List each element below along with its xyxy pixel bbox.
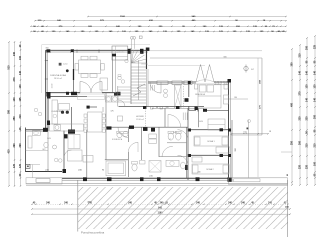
svg-text:410: 410	[8, 149, 11, 154]
bath bump north wall	[26, 129, 49, 131]
wall x198.5	[198, 108, 200, 127]
stair enclosure right thick	[146, 50, 148, 69]
svg-text:230: 230	[306, 116, 309, 121]
svg-text:garderoba: garderoba	[117, 50, 125, 53]
washbasins bath1	[117, 132, 122, 137]
wall toilet room y142.8	[167, 142, 187, 144]
svg-text:12.80 m2: 12.80 m2	[136, 119, 144, 121]
svg-text:270: 270	[299, 91, 302, 96]
bed 2 mid bedroom	[194, 136, 229, 146]
bump partition wall x48	[47, 131, 49, 172]
wall x128.3	[127, 127, 129, 142]
wall x165 upper	[164, 108, 166, 127]
shower square	[149, 161, 161, 173]
column kitchen wall	[47, 96, 51, 99]
bath bump west wall	[25, 128, 27, 173]
bump bath toilet	[44, 142, 48, 148]
svg-text:WC: WC	[42, 149, 46, 151]
property line x248	[248, 120, 250, 178]
wall east bedroom	[228, 80, 230, 182]
bedroom south wall	[189, 109, 196, 111]
roof overhang outline left	[41, 45, 43, 93]
column south x141	[140, 177, 144, 181]
office east wall	[86, 130, 88, 178]
svg-text:Pomožna površina: Pomožna površina	[81, 231, 105, 235]
svg-text:380: 380	[8, 109, 11, 114]
door arc lower	[162, 146, 173, 157]
dining cabinet	[100, 78, 108, 90]
svg-text:175: 175	[111, 110, 114, 112]
office closet upper	[68, 135, 80, 149]
svg-text:210: 210	[299, 53, 302, 58]
right dimension chain col 3	[306, 38, 308, 185]
svg-text:220: 220	[299, 164, 302, 169]
column south living left	[47, 92, 51, 97]
window in north wall 1	[157, 81, 168, 84]
svg-text:225: 225	[314, 44, 317, 49]
svg-text:140: 140	[306, 97, 309, 102]
svg-text:210: 210	[306, 143, 309, 148]
wardrobe mid	[216, 147, 230, 153]
stair up arrow line	[138, 60, 140, 100]
svg-text:140: 140	[314, 70, 317, 75]
chairs bottom	[81, 74, 88, 78]
svg-text:SPALNICA: SPALNICA	[195, 93, 205, 96]
dark mark stair bottom	[117, 92, 121, 96]
svg-text:KOPALNICA: KOPALNICA	[112, 138, 123, 141]
terrace overhang line	[148, 50, 262, 52]
wall x186.5	[186, 127, 188, 178]
svg-text:HODNIK: HODNIK	[136, 116, 145, 118]
svg-text:KUHINJA: KUHINJA	[51, 110, 61, 113]
svg-text:±0.00: ±0.00	[52, 84, 54, 88]
hatch left boundary line	[77, 180, 79, 232]
column SE corner	[228, 177, 232, 182]
slab strip left detail	[36, 179, 50, 183]
left wall window ticks	[45, 60, 48, 62]
svg-text:kamin: kamin	[63, 64, 68, 66]
door arc lower bedroom	[178, 155, 189, 166]
svg-text:160: 160	[314, 161, 317, 166]
utility west wall	[105, 93, 107, 160]
column south x158	[157, 177, 161, 181]
svg-text:260: 260	[299, 140, 302, 145]
top wall window ticks	[50, 49, 52, 52]
column top-left	[47, 49, 51, 52]
svg-text:210: 210	[19, 114, 22, 119]
entry door arc	[150, 82, 161, 93]
stoop below french door	[78, 94, 105, 100]
bedroom1 french door arcs	[196, 65, 201, 83]
svg-text:250: 250	[291, 140, 294, 145]
svg-text:140: 140	[19, 70, 22, 75]
left dimension chain col 2	[14, 42, 16, 186]
svg-text:140: 140	[306, 70, 309, 75]
svg-text:140: 140	[299, 70, 302, 75]
window in north wall 3	[184, 81, 192, 84]
entry circles	[164, 89, 168, 93]
entry hall west wall thin	[145, 69, 147, 107]
wall y156.7	[159, 156, 187, 158]
exterior wall top (living)	[46, 49, 149, 51]
svg-text:250: 250	[13, 116, 16, 121]
dim line 275	[232, 133, 269, 135]
terrace paving edge line	[148, 65, 205, 67]
svg-text:90: 90	[156, 107, 158, 109]
level marker box	[26, 164, 30, 168]
terrace outline right	[261, 58, 263, 135]
wall x159	[158, 127, 160, 157]
stair cut line	[133, 84, 145, 96]
stair east wall	[145, 50, 147, 69]
terrace inner edge	[257, 58, 259, 177]
svg-text:290: 290	[13, 143, 16, 148]
svg-text:90/60: 90/60	[173, 132, 177, 134]
vent dashed lines	[145, 108, 147, 127]
chair left	[75, 64, 78, 71]
dining east wall double	[112, 56, 114, 93]
window in north wall 2	[172, 81, 182, 84]
dining table kitchen	[88, 112, 103, 132]
door arc mid bedroom	[178, 130, 189, 141]
svg-text:90/60: 90/60	[47, 138, 51, 140]
top dimension chain row total	[88, 16, 286, 18]
bump partition wall y150	[26, 150, 49, 152]
kitchen island	[59, 104, 70, 111]
svg-text:130: 130	[13, 97, 16, 102]
svg-text:1160: 1160	[120, 16, 126, 18]
svg-text:120: 120	[166, 107, 169, 109]
kitchen west wall lower	[47, 97, 49, 132]
svg-text:180: 180	[234, 97, 237, 99]
wall segment mid y107	[87, 106, 97, 108]
column top x146 stair	[146, 48, 150, 51]
svg-text:240: 240	[198, 172, 201, 174]
section arrow bed area	[185, 165, 188, 170]
interior wall living/dining	[73, 50, 75, 93]
columns on bath top wall	[107, 126, 112, 129]
dining table	[79, 60, 101, 74]
column top x128	[128, 49, 131, 54]
entry closet strips	[175, 85, 182, 108]
svg-text:SOBA 2: SOBA 2	[206, 168, 214, 171]
wardrobe low	[192, 157, 202, 162]
door arc mid	[168, 115, 181, 128]
column dining	[71, 92, 77, 95]
column kitchen SE	[68, 130, 75, 134]
toilet bidet pair	[168, 133, 173, 140]
drain circle right	[248, 120, 251, 123]
sink counter lower	[166, 160, 179, 166]
svg-text:28.50 m2: 28.50 m2	[54, 78, 63, 80]
svg-text:130: 130	[314, 84, 317, 89]
radiator below window	[150, 85, 152, 91]
svg-text:210: 210	[314, 143, 317, 148]
svg-text:490: 490	[291, 102, 294, 107]
dark mark utility	[114, 93, 117, 96]
office desk	[68, 150, 83, 161]
slab strip left outline	[26, 178, 62, 184]
svg-text:DNEVNA SOBA: DNEVNA SOBA	[50, 74, 66, 77]
wall niche top	[112, 46, 128, 60]
living symbol	[59, 63, 62, 66]
stair niche symbols	[118, 76, 122, 80]
short wall x103	[102, 107, 104, 112]
svg-text:90/60: 90/60	[199, 121, 203, 123]
nightstand	[224, 84, 228, 89]
bed 3 lower bedroom	[192, 164, 229, 174]
right dimension chain col 4	[314, 36, 316, 185]
staircase treads upper flight	[131, 66, 146, 68]
bed 1 bedroom top right	[198, 84, 221, 108]
column south x108	[107, 177, 112, 181]
column NE	[228, 79, 232, 83]
hall south wall second line	[152, 107, 204, 109]
column entry SE	[185, 98, 189, 102]
hatched auxiliary surface area	[78, 187, 288, 229]
svg-text:130: 130	[19, 84, 22, 89]
kitchen sink	[54, 125, 61, 131]
svg-text:200: 200	[314, 114, 317, 119]
chairs dining right	[102, 114, 105, 117]
office cabinet	[83, 156, 93, 163]
floor drain symbols	[34, 108, 38, 112]
chairs dining left	[84, 114, 87, 117]
french door living arcs	[80, 82, 91, 93]
hall east wall segment	[187, 108, 189, 180]
stair left edge	[117, 86, 119, 107]
svg-text:160: 160	[19, 55, 22, 60]
wall dark segment	[73, 69, 75, 80]
office door arc	[64, 150, 72, 158]
svg-text:120: 120	[13, 163, 16, 168]
kitchen counter bottom	[50, 124, 84, 131]
svg-text:140: 140	[314, 97, 317, 102]
hatch right boundary line	[287, 180, 289, 237]
dim leader bed	[224, 98, 248, 100]
column south x84	[83, 177, 87, 181]
svg-text:SOBA 1: SOBA 1	[207, 140, 215, 143]
svg-text:45: 45	[286, 174, 289, 176]
top dimension chain row 3	[31, 31, 286, 33]
bump bath sink	[32, 131, 40, 136]
hall table	[118, 116, 123, 121]
bath tub	[106, 161, 126, 176]
svg-text:120: 120	[19, 163, 22, 168]
wall x141.5	[141, 127, 143, 160]
bottom dimension chain	[32, 203, 288, 205]
column bath SE	[63, 169, 67, 173]
wardrobe bedroom1	[208, 119, 225, 130]
svg-text:shramba: shramba	[141, 63, 148, 66]
right dimension chain col 1	[291, 49, 293, 185]
svg-text:300: 300	[291, 62, 294, 67]
chairs top	[81, 56, 88, 60]
svg-text:200: 200	[306, 45, 309, 50]
terrace bottom edge	[231, 134, 262, 136]
washer boxes left	[149, 134, 157, 138]
stair stringer wall	[130, 48, 132, 104]
cooktop dark dots	[61, 111, 64, 114]
top dimension chain row 2	[31, 25, 286, 27]
svg-text:220: 220	[306, 164, 309, 169]
staircase treads lower flight	[118, 86, 131, 88]
bottom total line 940	[32, 208, 290, 210]
bedroom west wall	[188, 82, 190, 97]
terrace outline top	[150, 57, 262, 59]
chair right	[101, 64, 104, 71]
bump shelf	[28, 136, 32, 148]
kitchen interior wall	[71, 107, 73, 130]
utility appliances	[106, 96, 112, 102]
hall south wall	[119, 106, 205, 108]
north wall bedroom segment	[214, 81, 229, 83]
column top mid	[71, 49, 74, 52]
svg-text:130: 130	[306, 84, 309, 89]
bath east wall	[63, 131, 65, 174]
vent symbol above wall	[130, 36, 133, 39]
svg-text:290: 290	[19, 143, 22, 148]
column hall x195	[195, 107, 199, 111]
dark door dot living	[66, 69, 69, 72]
column bath NE	[64, 134, 68, 138]
svg-text:125: 125	[19, 97, 22, 102]
bump bath sink pair	[54, 158, 58, 162]
slab strip right outline	[229, 178, 288, 185]
svg-text:230: 230	[299, 116, 302, 121]
column top x140	[140, 49, 144, 54]
door arc stair bottom	[119, 100, 126, 107]
bath bump south wall	[26, 171, 63, 173]
south wall living room (double)	[46, 92, 81, 94]
slab strip right inner	[234, 179, 261, 182]
south wall main (double)	[62, 177, 231, 179]
roof overhang outline top	[42, 44, 150, 46]
small sink bath1	[140, 161, 146, 165]
north wall right wing	[148, 81, 196, 83]
exterior wall left	[45, 50, 47, 131]
right dimension chain col 2	[299, 45, 301, 185]
svg-text:590: 590	[224, 57, 227, 59]
bottom total line 1160	[32, 213, 290, 215]
left dimension chain col 3	[20, 42, 22, 186]
stair niche circle	[125, 59, 128, 62]
svg-text:270: 270	[13, 77, 16, 82]
svg-text:240: 240	[13, 51, 16, 56]
bath row top wall	[106, 126, 188, 128]
svg-text:310: 310	[46, 47, 49, 49]
left dimension chain col 1	[8, 42, 10, 186]
bedroom mid wall 2	[188, 154, 231, 156]
corridor door arc into bath1	[118, 127, 128, 137]
tie line right	[281, 151, 292, 153]
bedroom mid wall 1	[188, 129, 231, 131]
bedroom desk	[224, 95, 229, 104]
staircase winder fan	[132, 50, 134, 63]
toilet bath1	[132, 164, 137, 171]
door arc bath1	[128, 142, 138, 152]
svg-text:M: M	[197, 110, 199, 113]
bath tub room south wall	[105, 159, 129, 161]
slab edge line bottom	[26, 183, 288, 185]
svg-text:510: 510	[8, 65, 11, 70]
kitchen counter vertical	[52, 100, 58, 124]
toilet lower right	[181, 162, 186, 169]
top dimension chain row 1	[35, 20, 286, 22]
compass symbol	[244, 66, 248, 70]
